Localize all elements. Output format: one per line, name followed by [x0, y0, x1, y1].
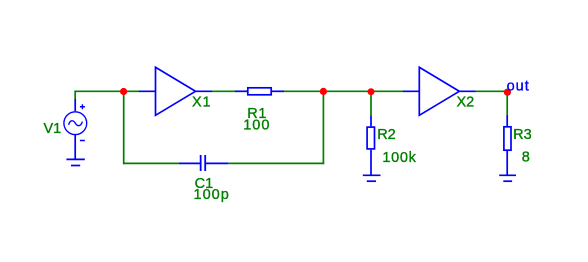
- svg-text:100k: 100k: [382, 150, 416, 166]
- svg-text:out: out: [507, 78, 530, 94]
- svg-text:V1: V1: [44, 121, 62, 137]
- svg-text:X2: X2: [457, 95, 475, 111]
- svg-text:100: 100: [243, 117, 270, 133]
- svg-text:R3: R3: [513, 127, 532, 143]
- svg-text:R2: R2: [377, 127, 396, 143]
- svg-text:8: 8: [522, 149, 530, 165]
- svg-text:X1: X1: [192, 95, 211, 111]
- svg-text:100p: 100p: [194, 187, 230, 203]
